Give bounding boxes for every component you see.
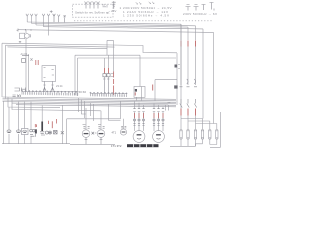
overload curl 1: [187, 79, 188, 84]
link jumper right: [194, 5, 199, 11]
jog x195-216: [196, 124, 217, 129]
staircase v2: [81, 100, 86, 114]
bus PE: [18, 30, 214, 33]
strip left marks: [13, 95, 21, 98]
pump P2 ticks top: [98, 127, 104, 129]
red seg r2: [195, 109, 197, 116]
lamp H3: [24, 131, 26, 133]
overload curl 2: [194, 79, 195, 84]
red feed ticks: [111, 74, 114, 77]
fuse term 3: [194, 130, 196, 140]
drop x120.5: [120, 101, 122, 119]
hook line 8: [12, 99, 101, 111]
motor A ticks: [133, 123, 144, 125]
box B1: [22, 129, 29, 135]
stub box corner: [107, 40, 114, 71]
wire mid h2: [78, 57, 177, 59]
option terminal 1: [85, 2, 88, 9]
svg-text:A1 K1: A1 K1: [21, 52, 29, 56]
pump P1 circle: [82, 130, 90, 138]
fuse F1 gray lead: [104, 58, 106, 68]
red mark loop: [152, 85, 154, 91]
right loop left: [154, 80, 156, 101]
terminal X1:1: [26, 14, 29, 22]
drop x24.7: [24, 101, 26, 143]
wire x181 mid: [180, 24, 182, 128]
fuse F2 gray lead: [108, 55, 110, 68]
tick cross: [19, 41, 21, 43]
band line 3: [3, 100, 177, 102]
relay K2 inner line: [141, 87, 143, 98]
red seg r0: [180, 109, 182, 116]
dark bar feed: [41, 106, 43, 122]
bus N: [44, 27, 204, 29]
pump P2 circle: [97, 130, 105, 138]
bottom bus left: [2, 143, 70, 145]
small motor ticks: [121, 126, 126, 128]
motor A lead 3: [143, 105, 145, 131]
contact slash 0: [180, 99, 182, 108]
wire x188 low: [187, 116, 189, 129]
option terminal 4: [97, 2, 100, 9]
svg-text:4T1: 4T1: [112, 131, 117, 135]
junction ticks upper: [178, 64, 179, 68]
motor A contact marks: [133, 109, 144, 112]
relay K2 dark mark: [135, 89, 137, 92]
right corner drop N: [202, 29, 204, 119]
svg-text:230V 50/60Hz → 6V: 230V 50/60Hz → 6V: [183, 12, 217, 16]
bus L2: [32, 24, 196, 26]
contactor Q1 tab: [29, 35, 30, 37]
drop x9: [8, 107, 10, 144]
wire drop x140: [139, 55, 141, 86]
fuse red L1: [180, 41, 182, 47]
svg-text:↘↘: ↘↘: [148, 0, 155, 5]
motor B circle: [153, 131, 165, 143]
enclosure box A left: [1, 43, 3, 97]
aux stubs: [166, 105, 169, 111]
terminal X1:6: [53, 14, 56, 22]
stem arrowheads: [43, 88, 54, 91]
fuse term 2: [187, 130, 189, 140]
terminal X1:7: [57, 15, 60, 23]
svg-text:~ 24V: ~ 24V: [109, 9, 117, 13]
pump P2 core: [99, 133, 104, 135]
link jumper left: [186, 5, 191, 11]
control box marks: [44, 68, 55, 78]
red S1 feeds: [36, 60, 38, 65]
drop x18.5: [18, 101, 20, 144]
wire drop x177: [176, 53, 178, 105]
enclosure box B top: [6, 45, 115, 47]
fuse red L2: [187, 41, 189, 47]
hook y118.8: [67, 118, 121, 120]
wire pair left v2: [25, 44, 27, 91]
overload ticks: [180, 86, 198, 88]
sym T right a: [202, 5, 206, 11]
contactor Q1 box: [20, 33, 25, 38]
motor A M mark: [137, 134, 142, 136]
fuse arrows: [103, 77, 110, 94]
dark label bar: [127, 144, 159, 147]
junction tick: [26, 29, 32, 31]
drop x60: [61, 105, 63, 143]
small motor stub: [123, 119, 125, 129]
svg-text:23 24: 23 24: [56, 84, 63, 88]
motor A circle: [133, 131, 145, 143]
motor A lead circles: [133, 119, 135, 121]
control box stems: [43, 81, 53, 90]
motor A red segs: [135, 113, 144, 118]
staircase v3: [83, 101, 85, 118]
wire drop to contactor: [25, 30, 27, 33]
relay K2 red mark: [134, 92, 136, 95]
strip top cluster: [15, 88, 27, 92]
fuse F2 red lead: [108, 68, 110, 73]
right corner drop L2: [195, 26, 197, 40]
red feed wire: [113, 72, 115, 96]
motor B lead 1: [153, 103, 155, 131]
staircase v1: [77, 98, 79, 112]
right corner drop L3: [187, 27, 189, 40]
junction block dark: [174, 85, 177, 88]
control box S1: [42, 66, 56, 82]
fuse F1 red lead: [104, 68, 106, 73]
svg-text:↘↘: ↘↘: [135, 1, 142, 6]
small motor core: [122, 131, 126, 133]
fuse term 1: [180, 130, 182, 140]
fuse term 6: [216, 130, 218, 140]
motor A 3ph mark: [137, 137, 141, 140]
stub x108.5: [109, 104, 121, 121]
lamp H1: [8, 131, 10, 133]
cluster dark blob: [35, 129, 37, 133]
pump P2 bottom: [100, 137, 103, 144]
relay K2 box: [134, 87, 145, 98]
motor B ticks: [153, 123, 164, 125]
band line 1: [3, 97, 177, 99]
wire pair mid v1: [74, 55, 76, 95]
motor B contact marks: [153, 109, 164, 112]
band line 6: [16, 105, 176, 107]
band line 4: [3, 102, 177, 104]
svg-text:1 230 50/60Hz → 4,5V: 1 230 50/60Hz → 4,5V: [123, 14, 169, 18]
option marks: [102, 5, 107, 8]
motor B lead 2: [158, 105, 160, 131]
motor B red segs: [154, 113, 163, 118]
right loop top: [155, 79, 177, 81]
terminal X1:2: [30, 14, 33, 24]
jog x188-210: [188, 121, 210, 128]
plus mark: [50, 10, 53, 13]
option terminal 3: [93, 2, 96, 9]
lamp pair: [45, 131, 48, 134]
terminal X1:3: [35, 14, 38, 25]
bus L1: [27, 22, 181, 24]
drop x66.7: [66, 119, 68, 144]
bar lower marks: [40, 132, 45, 135]
pump P1 core: [84, 133, 89, 135]
wire x203 end: [202, 118, 204, 120]
junction block dark upper: [175, 65, 178, 68]
wire pair mid v2: [77, 58, 79, 96]
dotted separator: [74, 20, 213, 22]
terminal X1:5: [47, 14, 50, 36]
drop x101 pump2: [100, 111, 102, 130]
motor B 3ph mark: [157, 137, 161, 140]
fuse term 5: [209, 130, 211, 140]
enclosure box A top: [2, 43, 177, 53]
svg-text:Switch for rev. 5s/6mm ap.: Switch for rev. 5s/6mm ap.: [75, 11, 110, 15]
contact slash 1: [187, 99, 189, 108]
red label 4: [56, 119, 58, 124]
lamp H2: [17, 131, 19, 133]
arrows between pumps: [92, 132, 97, 135]
contact slash 2: [194, 99, 196, 108]
option terminal 2: [89, 2, 92, 9]
bus L3: [36, 25, 188, 27]
right corner drop L1: [180, 24, 182, 40]
fuse F1 body: [103, 74, 106, 77]
motor A lead 2: [138, 103, 140, 131]
drop x86 pump1: [85, 108, 87, 130]
left stub: [17, 29, 19, 32]
right long vertical: [213, 32, 215, 123]
svg-text:1T1 3T2: 1T1 3T2: [111, 144, 122, 148]
terminal strip right: [90, 92, 127, 97]
pump labels: [83, 124, 102, 126]
small motor circle: [120, 129, 126, 135]
contact X on x60: [61, 131, 64, 134]
terminal strip left: [21, 90, 77, 95]
fuse F2 body: [107, 74, 110, 77]
arrow mark: [64, 15, 66, 22]
relay K2 stubs: [137, 97, 142, 101]
staircase v4: [90, 103, 92, 116]
sym T right b: [210, 3, 215, 11]
dark contact bar: [41, 122, 43, 132]
cross link h: [135, 104, 169, 106]
drop x31: [30, 101, 32, 143]
terminal X1:4: [42, 14, 45, 27]
wire L3 down: [195, 47, 197, 86]
fuse red L3: [195, 41, 197, 47]
motor B M mark: [156, 134, 161, 136]
enclosure box B left: [5, 45, 7, 98]
bottom bus mid: [70, 143, 115, 145]
wire L1 down: [180, 47, 182, 86]
red label 3: [48, 121, 50, 124]
wire mid h1: [75, 54, 140, 56]
motor B lead 3: [162, 107, 164, 132]
cluster red label: [35, 124, 36, 127]
band line 5: [12, 103, 176, 105]
drop left long: [3, 101, 5, 144]
wire pair left v1: [28, 54, 30, 92]
wire L2 down: [187, 47, 189, 86]
bottom join right: [170, 144, 217, 147]
cluster lower marks: [30, 134, 36, 137]
wire x195 low: [195, 116, 197, 129]
contactor Q1 coil circle: [25, 34, 30, 39]
dashed option box: [73, 4, 114, 17]
right border low: [210, 112, 221, 147]
wire contactor down: [25, 38, 27, 43]
cluster2 box: [54, 130, 58, 134]
motor B lead circles: [153, 119, 155, 121]
hook line 7: [8, 97, 60, 108]
fuse term 4: [201, 130, 203, 140]
transformer T sym: [112, 1, 116, 9]
pump P1 bottom: [85, 137, 88, 144]
staircase v5: [93, 104, 95, 121]
inner box C top: [8, 47, 108, 49]
cluster circles: [30, 129, 33, 132]
pump P1 ticks top: [83, 127, 89, 129]
motor A lead 1: [134, 101, 136, 131]
svg-text:≈≈: ≈≈: [168, 101, 172, 105]
red label 2: [51, 121, 53, 128]
svg-text:50 60: 50 60: [79, 90, 87, 94]
band line 2: [3, 99, 177, 101]
jog x181-202: [181, 119, 203, 129]
red seg r1: [187, 109, 189, 116]
relay K0 cluster: [22, 56, 33, 63]
